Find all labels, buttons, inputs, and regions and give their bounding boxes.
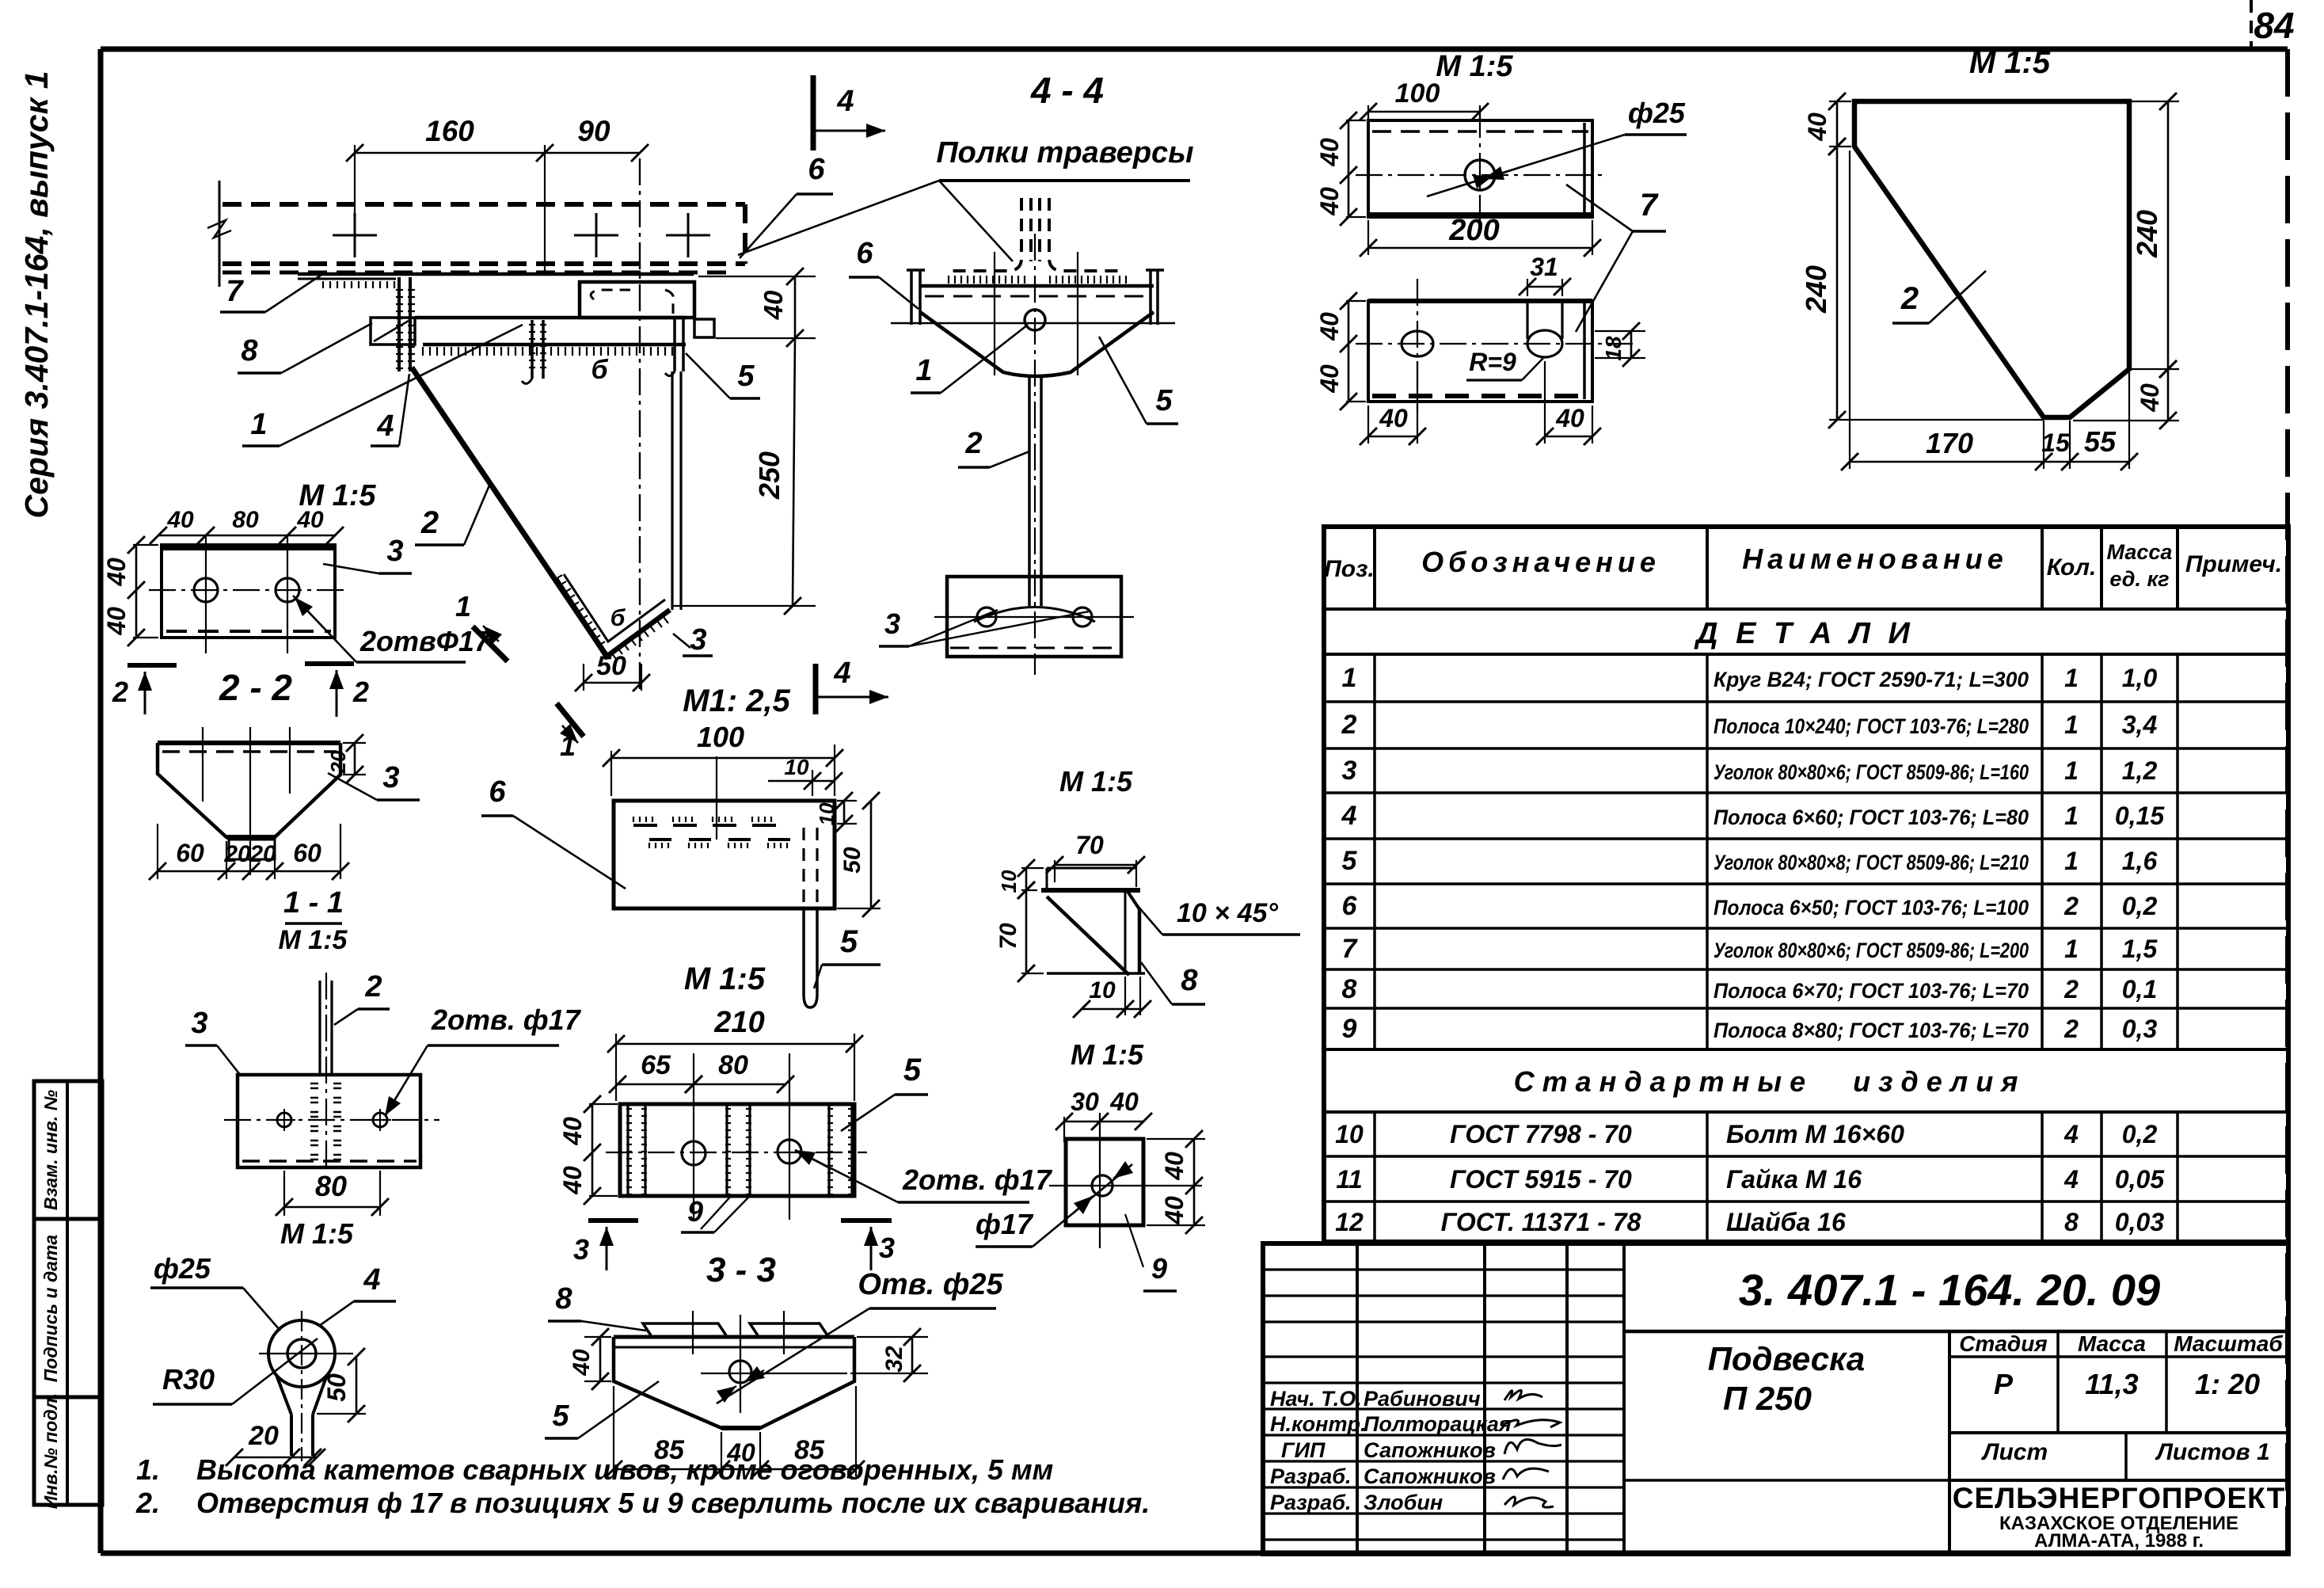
svg-text:240: 240	[1800, 265, 1832, 314]
svg-text:2: 2	[964, 427, 982, 460]
3-3 hole	[729, 1361, 751, 1383]
bolt cross 2	[574, 234, 618, 237]
svg-text:Нач. Т.О.: Нач. Т.О.	[1270, 1387, 1362, 1411]
4-4 centerline	[1034, 234, 1036, 675]
brace 2 (diagonal)	[412, 367, 607, 656]
svg-text:ф25: ф25	[1628, 97, 1686, 129]
svg-text:6: 6	[808, 153, 825, 186]
svg-text:1: 1	[2064, 710, 2079, 739]
1-1 dim 80	[283, 1171, 285, 1216]
4-4 hole	[1025, 310, 1045, 330]
svg-text:Лист: Лист	[1981, 1439, 2048, 1465]
title block stadia values	[1949, 1431, 2288, 1434]
svg-text:1: 1	[2064, 847, 2079, 875]
svg-text:40: 40	[759, 290, 788, 320]
svg-text:6: 6	[1342, 891, 1358, 921]
pos7 slot	[1526, 301, 1528, 339]
parts table grid	[1324, 527, 2288, 1242]
4-4 base line	[891, 322, 1175, 325]
svg-text:2отв. ф17: 2отв. ф17	[902, 1163, 1053, 1196]
svg-text:170: 170	[1926, 427, 1973, 459]
svg-text:80: 80	[315, 1170, 347, 1202]
svg-text:2: 2	[420, 505, 439, 540]
svg-text:2: 2	[1900, 281, 1919, 316]
svg-text:31: 31	[1530, 253, 1558, 281]
4-4 beam	[920, 284, 1154, 288]
pos8 dim 70 top	[1055, 864, 1136, 866]
svg-text:R=9: R=9	[1469, 348, 1516, 376]
pos7 dim 200	[1368, 247, 1592, 249]
svg-text:Рабинович: Рабинович	[1364, 1387, 1481, 1411]
svg-text:М 1:5: М 1:5	[280, 1217, 354, 1250]
svg-text:9: 9	[1151, 1252, 1167, 1285]
svg-text:П 250: П 250	[1723, 1380, 1812, 1417]
svg-text:ГОСТ. 11371 - 78: ГОСТ. 11371 - 78	[1441, 1208, 1641, 1236]
pos2 dim 240 left	[1836, 147, 1839, 420]
svg-text:5: 5	[1155, 384, 1173, 417]
svg-text:Наименование: Наименование	[1742, 543, 2007, 575]
teardrop dim 50	[317, 1413, 366, 1415]
pos3 centerlines	[149, 589, 348, 591]
3-3 dims 85/40/85	[613, 1386, 614, 1476]
svg-text:М 1:5: М 1:5	[1436, 50, 1513, 83]
pos9 dims 40/40 right	[1147, 1138, 1205, 1140]
plate 6 (right box)	[580, 282, 694, 318]
teardrop outline	[268, 1320, 335, 1387]
pos7 dim 18	[1595, 330, 1645, 332]
svg-text:250: 250	[753, 451, 785, 500]
teardrop centerlines	[301, 1311, 302, 1461]
svg-text:12: 12	[1335, 1208, 1364, 1236]
svg-text:Разраб.: Разраб.	[1270, 1464, 1352, 1488]
svg-text:Гайка М 16: Гайка М 16	[1726, 1165, 1862, 1194]
svg-text:40: 40	[102, 558, 131, 587]
svg-text:б: б	[610, 605, 626, 631]
right tab	[694, 319, 714, 337]
svg-text:2: 2	[2063, 892, 2079, 920]
svg-text:0,1: 0,1	[2122, 975, 2157, 1003]
svg-text:Н.контр.: Н.контр.	[1270, 1412, 1367, 1436]
m125 weld dashes	[633, 824, 657, 827]
3-3 centerlines	[740, 1315, 741, 1413]
svg-text:10: 10	[815, 802, 839, 825]
signatures	[1504, 1390, 1542, 1400]
svg-text:4: 4	[376, 409, 394, 443]
svg-text:210: 210	[713, 1006, 764, 1039]
main view dim 160/90	[355, 152, 640, 154]
svg-text:5: 5	[737, 360, 755, 393]
svg-text:3: 3	[191, 1007, 207, 1040]
m125 dim 10 top	[812, 770, 813, 796]
pos7 bottom dims 40 40	[1367, 406, 1369, 444]
pos7 dim 100	[1367, 105, 1369, 147]
svg-text:Шайба 16: Шайба 16	[1726, 1208, 1846, 1236]
pos7 centerlines	[1356, 174, 1604, 176]
svg-text:7: 7	[1640, 188, 1659, 223]
svg-text:100: 100	[697, 721, 744, 753]
1-1 plate	[238, 1075, 420, 1167]
svg-text:М 1:5: М 1:5	[684, 962, 766, 996]
1-1 weld marks	[310, 1083, 318, 1085]
svg-text:11,3: 11,3	[2085, 1368, 2138, 1400]
pos7 dim 31	[1527, 279, 1528, 296]
svg-text:15: 15	[2041, 428, 2071, 457]
svg-text:8: 8	[1342, 974, 1357, 1004]
svg-text:1: 1	[2064, 664, 2079, 692]
svg-text:Д Е Т А Л И: Д Е Т А Л И	[1694, 617, 1915, 650]
210 holes	[682, 1141, 706, 1165]
pos3 plate	[162, 545, 335, 638]
pole centerline	[639, 158, 641, 691]
svg-text:9: 9	[1342, 1014, 1357, 1044]
angle 7 top flange	[298, 272, 694, 276]
svg-text:1: 1	[2064, 756, 2079, 785]
pos2 dim 40 left	[1829, 101, 1851, 102]
angle 7 vertical leg	[397, 277, 401, 371]
svg-text:4: 4	[363, 1263, 380, 1297]
pos9 dims 30/40	[1064, 1121, 1143, 1123]
svg-text:40: 40	[1803, 112, 1831, 142]
1-1 centerline h	[224, 1119, 439, 1121]
svg-text:8: 8	[2064, 1208, 2079, 1236]
svg-text:5: 5	[1342, 846, 1358, 876]
svg-text:Уголок 80×80×8; ГОСТ 8509-86;: Уголок 80×80×8; ГОСТ 8509-86; L=210	[1714, 851, 2029, 874]
svg-text:ГОСТ 5915 - 70: ГОСТ 5915 - 70	[1450, 1165, 1632, 1194]
svg-text:Масса: Масса	[2107, 540, 2173, 564]
svg-text:200: 200	[1448, 214, 1499, 247]
pos8 chamfer	[1127, 890, 1139, 909]
svg-text:ф17: ф17	[976, 1208, 1034, 1240]
svg-text:90: 90	[577, 115, 610, 147]
3-3 plate body	[614, 1335, 854, 1339]
svg-text:18: 18	[1601, 336, 1626, 361]
rod 1 (horizontal)	[415, 316, 686, 320]
210 dim	[616, 1043, 854, 1045]
svg-text:1,6: 1,6	[2122, 847, 2158, 875]
svg-text:4: 4	[2063, 1165, 2079, 1194]
title block doc number	[1624, 1330, 2288, 1334]
section mark 2 right	[305, 661, 354, 666]
svg-text:1: 1	[1342, 663, 1357, 693]
svg-text:М1: 2,5: М1: 2,5	[683, 684, 790, 718]
svg-text:Кол.: Кол.	[2047, 554, 2097, 581]
title block sheet row	[2124, 1433, 2128, 1480]
svg-text:40: 40	[166, 507, 194, 533]
pos7 lower centerlines	[1356, 343, 1633, 345]
svg-text:0,05: 0,05	[2115, 1165, 2165, 1194]
angle 3 (V bottom)	[556, 579, 670, 657]
1-1 holes	[277, 1113, 291, 1127]
title block grid	[1263, 1243, 2288, 1554]
section mark 1 lower	[557, 703, 584, 737]
svg-text:ф25: ф25	[154, 1252, 211, 1285]
m125 plate	[614, 801, 835, 908]
svg-text:1.: 1.	[136, 1453, 160, 1486]
svg-text:Взам. инв. №: Взам. инв. №	[40, 1090, 61, 1210]
svg-text:Отверстия ф 17 в пози: Отверстия ф 17 в позициях 5 и 9 сверлить…	[196, 1487, 1150, 1519]
vertical strap	[671, 371, 673, 610]
svg-text:40: 40	[1315, 138, 1344, 167]
svg-text:7: 7	[1342, 934, 1359, 964]
4-4 dashed T (traverse)	[950, 198, 1021, 271]
svg-text:2: 2	[2063, 1015, 2079, 1043]
m125 plate centerline	[716, 756, 717, 840]
svg-text:1: 1	[560, 729, 576, 762]
main view break line	[219, 181, 221, 287]
svg-text:Масса: Масса	[2078, 1331, 2146, 1356]
svg-text:Полоса 6×50; ГОСТ 103-76; L=: Полоса 6×50; ГОСТ 103-76; L=100	[1714, 896, 2029, 920]
bolt cross 1	[333, 234, 377, 237]
210 centerlines	[606, 1152, 867, 1153]
svg-text:3: 3	[573, 1233, 589, 1266]
pos7 hole	[1465, 160, 1495, 190]
left stamp column	[34, 1081, 102, 1505]
dim 40 (right)	[698, 276, 816, 277]
svg-text:1: 1	[250, 408, 267, 441]
svg-text:М 1:5: М 1:5	[1059, 765, 1133, 798]
svg-text:5: 5	[840, 924, 858, 959]
svg-text:2 - 2: 2 - 2	[219, 667, 292, 708]
svg-text:3,4: 3,4	[2122, 710, 2158, 739]
svg-text:65: 65	[641, 1050, 671, 1080]
4-4 bottom centerline	[934, 616, 1134, 618]
svg-text:55: 55	[2084, 425, 2117, 458]
2-2 neck strap	[229, 840, 275, 859]
svg-text:4: 4	[836, 85, 854, 118]
drawing frame	[101, 47, 2288, 52]
m125 hanging strap 5	[802, 908, 805, 994]
section mark 1 upper	[473, 626, 508, 661]
title block stadia header	[1949, 1355, 2288, 1358]
pos9 plate	[1066, 1139, 1143, 1225]
svg-text:40: 40	[102, 607, 131, 636]
pos7 dim 40/40 left	[1346, 120, 1366, 121]
svg-text:50: 50	[322, 1373, 351, 1402]
section mark 3 left	[588, 1218, 638, 1223]
pos7 oval hole	[1402, 331, 1433, 356]
4-4 weld teeth	[949, 276, 1025, 284]
svg-text:4: 4	[833, 657, 850, 690]
svg-text:40: 40	[569, 1349, 595, 1377]
pos2 dim 240 right	[2132, 101, 2179, 102]
3-3 top straps	[643, 1323, 726, 1335]
svg-text:3 - 3: 3 - 3	[706, 1251, 776, 1289]
svg-text:Полоса 6×70; ГОСТ 103-76; L=7: Полоса 6×70; ГОСТ 103-76; L=70	[1714, 979, 2029, 1003]
2-2 centerlines	[202, 727, 203, 802]
svg-text:60: 60	[293, 839, 321, 867]
svg-text:80: 80	[718, 1050, 748, 1080]
teardrop hole	[287, 1339, 316, 1368]
svg-text:Злобин: Злобин	[1364, 1491, 1443, 1514]
svg-text:Стадия: Стадия	[1959, 1331, 2048, 1356]
margin tick	[2250, 0, 2253, 48]
svg-text:6: 6	[856, 237, 873, 270]
svg-text:50: 50	[596, 651, 626, 681]
65/80 dims	[618, 1083, 694, 1086]
svg-text:ГОСТ 7798 - 70: ГОСТ 7798 - 70	[1450, 1120, 1632, 1148]
4-4 right end plate	[1149, 270, 1152, 325]
svg-text:Полторацкая: Полторацкая	[1364, 1412, 1512, 1436]
plate 4	[371, 318, 415, 345]
svg-text:2: 2	[112, 676, 128, 708]
middle hanger plate	[531, 320, 534, 379]
dim 50 (V)	[583, 664, 584, 691]
pos3 dim 40/40 left	[133, 544, 158, 546]
svg-text:Болт М 16×60: Болт М 16×60	[1726, 1120, 1904, 1148]
svg-text:Инв.№ подл.: Инв.№ подл.	[40, 1393, 61, 1509]
pos7 top plate	[1368, 120, 1592, 217]
svg-text:20: 20	[249, 841, 276, 867]
svg-text:Отв. ф25: Отв. ф25	[858, 1268, 1003, 1301]
svg-text:М 1:5: М 1:5	[279, 925, 348, 955]
svg-text:Сапожников: Сапожников	[1364, 1438, 1496, 1462]
4-4 saddle curve	[974, 607, 1095, 623]
svg-text:2: 2	[352, 676, 369, 708]
m125 dim 50 right	[870, 801, 873, 908]
svg-text:6: 6	[489, 775, 506, 809]
svg-text:40: 40	[1315, 312, 1344, 341]
svg-text:1: 20: 1: 20	[2195, 1368, 2260, 1400]
svg-text:1,2: 1,2	[2122, 756, 2158, 785]
svg-text:3: 3	[382, 761, 399, 794]
svg-text:11: 11	[1336, 1165, 1362, 1194]
svg-text:40: 40	[1315, 187, 1344, 216]
pos8 dim 10 bottom	[1124, 977, 1126, 1015]
svg-text:100: 100	[1395, 78, 1440, 109]
section mark 4 top	[811, 75, 816, 150]
svg-text:20: 20	[248, 1421, 279, 1451]
svg-text:Подвеска: Подвеска	[1708, 1340, 1866, 1377]
svg-text:4: 4	[1341, 801, 1357, 831]
svg-text:Полоса 6×60; ГОСТ 103-76; L=: Полоса 6×60; ГОСТ 103-76; L=80	[1714, 805, 2029, 829]
svg-text:5: 5	[903, 1053, 922, 1087]
m125 dim 10 right	[837, 800, 857, 802]
svg-text:Масштаб: Масштаб	[2174, 1331, 2283, 1356]
svg-text:Круг В24; ГОСТ 2590-71; L=300: Круг В24; ГОСТ 2590-71; L=300	[1714, 668, 2029, 691]
svg-text:40: 40	[558, 1166, 587, 1195]
svg-text:9: 9	[687, 1195, 703, 1228]
svg-text:40: 40	[1379, 404, 1408, 432]
svg-text:Уголок 80×80×6; ГОСТ 8509-86;: Уголок 80×80×6; ГОСТ 8509-86; L=160	[1714, 760, 2029, 784]
4-4 bolt centerlines	[994, 252, 995, 375]
svg-text:40: 40	[726, 1438, 755, 1467]
svg-text:240: 240	[2131, 210, 2163, 258]
4-4 rod 2	[1028, 378, 1031, 606]
svg-text:Уголок 80×80×6; ГОСТ 8509-86;: Уголок 80×80×6; ГОСТ 8509-86; L=200	[1714, 939, 2029, 962]
svg-text:40: 40	[1160, 1152, 1189, 1181]
svg-text:Полоса 10×240; ГОСТ 103-76; L=: Полоса 10×240; ГОСТ 103-76; L=280	[1714, 714, 2029, 738]
svg-text:Примеч.: Примеч.	[2185, 551, 2282, 577]
svg-text:0,15: 0,15	[2115, 802, 2165, 830]
svg-text:ед. кг: ед. кг	[2109, 567, 2169, 591]
svg-text:М 1:5: М 1:5	[1969, 45, 2051, 80]
svg-text:20: 20	[223, 841, 251, 867]
svg-text:10: 10	[1089, 977, 1116, 1003]
210 dim 40/40	[589, 1103, 618, 1105]
svg-text:4 - 4: 4 - 4	[1030, 70, 1104, 111]
svg-text:40: 40	[1315, 364, 1344, 394]
svg-text:3: 3	[1342, 756, 1357, 786]
title block name cell	[1948, 1331, 1951, 1554]
svg-text:1: 1	[455, 590, 471, 623]
svg-text:32: 32	[881, 1346, 907, 1373]
svg-text:40: 40	[296, 507, 324, 533]
svg-text:1,5: 1,5	[2122, 935, 2159, 963]
svg-text:1: 1	[2064, 802, 2079, 830]
pos7 lower plate	[1368, 301, 1592, 402]
pos2 dim 40 right	[2073, 420, 2179, 421]
svg-text:40: 40	[2136, 383, 2164, 413]
svg-text:3: 3	[386, 535, 403, 568]
svg-text:Подпись и дата: Подпись и дата	[40, 1235, 61, 1383]
svg-text:160: 160	[425, 115, 474, 147]
svg-text:8: 8	[555, 1282, 572, 1316]
pos3 dims 40/80/40	[158, 535, 335, 537]
svg-text:Полки траверсы: Полки траверсы	[936, 136, 1193, 169]
svg-text:85: 85	[794, 1435, 825, 1465]
svg-text:50: 50	[839, 847, 865, 874]
svg-text:0,3: 0,3	[2122, 1015, 2158, 1043]
svg-text:70: 70	[995, 923, 1021, 950]
section mark 2 left	[127, 663, 177, 668]
bolt cross 3	[666, 234, 710, 237]
210 plate body	[620, 1104, 854, 1196]
label 3 leader (V)	[673, 634, 690, 648]
svg-text:1 - 1: 1 - 1	[283, 886, 344, 920]
svg-text:Полоса 8×80; ГОСТ 103-76; L=: Полоса 8×80; ГОСТ 103-76; L=70	[1714, 1019, 2029, 1042]
svg-text:2: 2	[364, 970, 382, 1003]
3-3 dim 32	[857, 1336, 928, 1338]
m125 dim 100	[611, 757, 835, 760]
3-3 dim 40 left	[584, 1336, 611, 1338]
pos8 body	[1138, 909, 1142, 973]
svg-text:40: 40	[558, 1117, 587, 1146]
svg-text:0,03: 0,03	[2115, 1208, 2164, 1236]
2-2 dim 20 right	[343, 742, 366, 744]
svg-text:85: 85	[654, 1435, 685, 1465]
weld seam 6 (long)	[423, 347, 672, 356]
svg-text:80: 80	[232, 507, 259, 533]
pos8 top plate	[1047, 867, 1136, 870]
1-1 rod	[318, 981, 321, 1075]
svg-text:70: 70	[1075, 831, 1104, 859]
svg-text:2: 2	[2063, 975, 2079, 1003]
svg-text:4: 4	[2063, 1120, 2079, 1148]
svg-text:Листов 1: Листов 1	[2155, 1439, 2269, 1465]
svg-text:2.: 2.	[135, 1487, 160, 1519]
dim 250 (right)	[793, 338, 795, 606]
svg-text:40: 40	[1555, 404, 1584, 432]
svg-text:Поз.: Поз.	[1324, 556, 1375, 582]
pos7 dim 40 left lower	[1346, 300, 1366, 302]
svg-text:30: 30	[1071, 1087, 1099, 1116]
pos3 holes	[194, 578, 218, 602]
2-2 top plate	[158, 741, 340, 745]
svg-text:3: 3	[884, 607, 900, 640]
plate 5 hanger (section)	[673, 318, 676, 371]
svg-text:8: 8	[1181, 964, 1198, 997]
4-4 left end plate	[910, 270, 913, 325]
svg-text:2: 2	[1341, 710, 1357, 740]
2-2 outline	[158, 743, 340, 837]
svg-text:2отв. ф17: 2отв. ф17	[431, 1003, 582, 1036]
svg-text:АЛМА-АТА, 1988 г.: АЛМА-АТА, 1988 г.	[2034, 1530, 2204, 1552]
svg-text:3. 407.1 - 164. 20. 09: 3. 407.1 - 164. 20. 09	[1739, 1265, 2160, 1315]
svg-text:R30: R30	[162, 1363, 215, 1396]
m125 hidden strap	[802, 828, 804, 905]
teardrop dim 20	[234, 1457, 317, 1459]
4-4 bottom plate 3	[947, 577, 1121, 657]
